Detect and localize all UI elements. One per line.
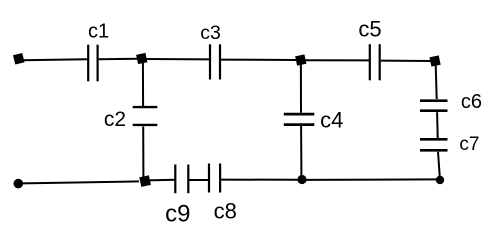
svg-text:c2: c2	[104, 108, 126, 131]
wire	[306, 178, 436, 181]
capacitor C5	[370, 44, 380, 80]
svg-text:c7: c7	[459, 134, 479, 155]
terminal bottom-left	[13, 179, 23, 189]
capacitor C3	[210, 44, 220, 79]
wire	[436, 112, 439, 138]
wire	[21, 59, 88, 60]
capacitor C2	[133, 107, 158, 125]
capacitor C9	[175, 165, 188, 194]
capacitor C1	[88, 45, 97, 82]
wire	[146, 58, 209, 60]
capacitor C8	[209, 164, 220, 193]
capacitor C7	[420, 139, 448, 150]
wire	[381, 60, 431, 62]
node junction C5-C6	[429, 55, 440, 66]
wire	[99, 58, 138, 61]
svg-text:c5: c5	[358, 17, 381, 42]
wire	[23, 181, 140, 183]
wire	[142, 126, 144, 177]
svg-text:c6: c6	[461, 91, 482, 113]
wire	[148, 179, 175, 182]
terminal top-left	[13, 53, 25, 65]
node junction C3-C4-C5	[295, 54, 306, 65]
wire	[438, 152, 440, 176]
capacitor C4	[284, 114, 315, 125]
wire	[142, 63, 144, 106]
capacitor C6	[420, 101, 448, 111]
wire	[436, 65, 437, 99]
node junction bottom-right	[436, 176, 444, 184]
svg-text:c3: c3	[200, 22, 221, 44]
wire	[300, 126, 302, 176]
wire	[189, 179, 208, 181]
wire	[300, 65, 302, 113]
svg-text:c4: c4	[320, 108, 343, 133]
wire	[221, 179, 298, 181]
svg-text:c8: c8	[214, 198, 237, 223]
node junction C1-C2-C3	[136, 53, 147, 64]
node junction bottom C4	[297, 175, 306, 184]
wire	[305, 59, 369, 61]
wire	[221, 59, 297, 61]
node junction C2-C9 bottom	[139, 175, 151, 187]
svg-text:c9: c9	[165, 201, 190, 225]
svg-text:c1: c1	[88, 21, 109, 43]
